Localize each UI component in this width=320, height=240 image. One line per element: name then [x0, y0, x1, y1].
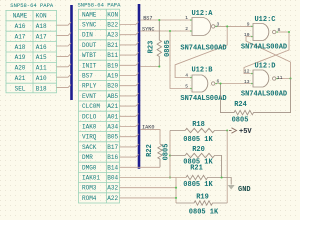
ground symbol: [228, 185, 235, 190]
resistor R20: [170, 153, 222, 177]
svg-text:SEL: SEL: [15, 85, 26, 92]
junction SYNC tap: [169, 30, 171, 32]
svg-text:B05: B05: [107, 134, 118, 141]
svg-text:8: 8: [278, 27, 281, 33]
svg-text:A23: A23: [107, 32, 118, 39]
svg-text:10: 10: [244, 32, 250, 38]
svg-text:U12:C: U12:C: [254, 16, 275, 24]
wire SYNC to bus2: [120, 22, 139, 25]
svg-text:A19: A19: [107, 73, 118, 80]
svg-text:INIT: INIT: [82, 62, 97, 69]
table X2 cell text: [82, 11, 118, 202]
svg-text:DMG0: DMG0: [82, 164, 97, 171]
wire EVNT to bus2: [120, 93, 139, 96]
U12:A pin end dots: [190, 19, 217, 32]
op-amp U12:C NAND gate: [253, 24, 276, 41]
wire A20 to bus: [57, 64, 72, 67]
svg-text:0805: 0805: [232, 117, 249, 125]
svg-text:13: 13: [244, 79, 250, 85]
svg-text:ROM4: ROM4: [82, 195, 97, 202]
svg-text:NAME: NAME: [13, 13, 28, 20]
svg-text:RPLY: RPLY: [82, 83, 97, 90]
wire left vertical node (R18/R20 left rail): [169, 131, 171, 178]
svg-text:R24: R24: [234, 101, 247, 109]
wire RPLY stub from bus2 to R23 bottom: [140, 66, 159, 68]
svg-text:R18: R18: [192, 121, 205, 129]
wire net BS7 from bus2 to U12:A pin 1: [140, 19, 192, 21]
resistor R22 (vertical): [158, 144, 162, 167]
svg-text:BS7: BS7: [143, 15, 152, 21]
junction ROM3 rail: [175, 187, 177, 189]
connector table X2 SNP58-64 PAPA (control lines): [79, 9, 120, 203]
svg-text:B04: B04: [107, 175, 118, 182]
wire U12:A output feedback diagonal to U12:B pin 4: [175, 26, 227, 77]
wire INIT to bus2: [120, 63, 139, 66]
svg-text:A19: A19: [15, 54, 26, 61]
svg-text:SN74ALS00AD: SN74ALS00AD: [180, 95, 226, 103]
svg-text:A22: A22: [107, 195, 118, 202]
svg-text:+5V: +5V: [239, 128, 252, 136]
svg-text:B21: B21: [107, 42, 118, 49]
wire U12:B output to U12:D pin 13: [215, 83, 253, 85]
power port +5V arrow: [229, 128, 237, 133]
svg-text:A17: A17: [36, 33, 47, 40]
svg-text:2: 2: [185, 26, 188, 32]
svg-text:0805: 0805: [163, 144, 171, 161]
svg-text:0805 1K: 0805 1K: [183, 136, 213, 144]
junction U12:A output node: [226, 25, 228, 27]
wire A18 to bus: [57, 43, 72, 46]
svg-text:SYNC: SYNC: [82, 22, 97, 29]
wire RPLY to bus2: [120, 83, 139, 86]
svg-text:NAME: NAME: [82, 11, 97, 18]
wire DCLO to bus2: [120, 114, 139, 117]
wire A19 to bus: [57, 53, 72, 56]
svg-text:B20: B20: [107, 83, 118, 90]
svg-text:R20: R20: [192, 146, 205, 154]
bus 2 (control bus): [138, 4, 141, 169]
wire DIN to bus2: [120, 32, 139, 35]
wire SEL to bus: [57, 85, 72, 88]
wire U12:D output cross-couple diagonal to U12:C pin 10: [246, 37, 291, 63]
wire U12:A output to U12:C pin 9: [215, 25, 253, 27]
wire A21 to bus: [57, 74, 72, 77]
svg-text:WTBT: WTBT: [82, 52, 97, 59]
svg-text:3: 3: [217, 21, 220, 27]
svg-text:KON: KON: [107, 11, 118, 18]
resistor R18: [170, 128, 227, 132]
connector table X1 SNP58-64 PAPA (address lines): [6, 10, 57, 92]
wire WTBT to bus2: [120, 52, 139, 55]
wire net ROM3 from table to rail: [120, 187, 177, 189]
svg-text:BS7: BS7: [82, 73, 93, 80]
wire net SYNC from bus2 to U12:A pin 2: [140, 30, 192, 32]
svg-text:B11: B11: [107, 52, 118, 59]
svg-text:0805 1K: 0805 1K: [183, 181, 213, 189]
junction U12:C output node: [288, 31, 290, 33]
svg-text:R23: R23: [148, 41, 156, 54]
svg-text:CLC0M: CLC0M: [82, 103, 100, 110]
svg-text:DCLO: DCLO: [82, 113, 97, 120]
svg-text:SN74ALS00AD: SN74ALS00AD: [241, 91, 287, 99]
wire net DMG0 from table to R22 bottom: [120, 166, 161, 168]
svg-text:U12:A: U12:A: [191, 10, 213, 18]
svg-text:0805 1K: 0805 1K: [189, 209, 219, 217]
svg-text:A18: A18: [15, 44, 26, 51]
junction R20 left: [169, 154, 171, 156]
junction R23 top on BS7 wire: [158, 19, 160, 21]
svg-text:0805: 0805: [164, 40, 172, 57]
junction rail on IAK01 wire: [169, 176, 171, 178]
svg-text:A15: A15: [36, 54, 47, 61]
svg-text:A34: A34: [107, 124, 118, 131]
wire net IAK0 from bus2 to R22 top: [140, 130, 160, 144]
svg-text:U12:D: U12:D: [254, 63, 275, 71]
svg-text:U12:B: U12:B: [191, 67, 213, 75]
wire net ROM4 from table to rail: [120, 197, 177, 199]
op-amp U12:A NAND gate: [192, 18, 218, 36]
junction R20/R21 GND tie: [221, 176, 223, 178]
svg-text:R22: R22: [146, 144, 154, 157]
svg-text:KON: KON: [36, 13, 47, 20]
svg-text:SNP58-64 PAPA: SNP58-64 PAPA: [78, 1, 122, 8]
wire A17 to bus: [57, 33, 72, 36]
svg-text:A20: A20: [15, 65, 26, 72]
wire BS7 to bus2: [120, 73, 139, 76]
svg-text:A10: A10: [36, 75, 47, 82]
wire CLC0M to bus2: [120, 103, 139, 106]
junction +5V node: [226, 129, 228, 131]
wire VIRQ to bus2: [120, 134, 139, 137]
junction U12:D output node: [289, 77, 291, 79]
svg-text:B18: B18: [36, 85, 47, 92]
svg-text:SNP58-64 PAPA: SNP58-64 PAPA: [10, 2, 54, 9]
svg-text:SN74ALS00AD: SN74ALS00AD: [180, 45, 226, 53]
wire A16 to bus: [57, 22, 72, 25]
svg-text:A18: A18: [36, 23, 47, 30]
svg-text:A11: A11: [36, 65, 47, 72]
svg-text:1: 1: [185, 15, 188, 21]
svg-text:A21: A21: [15, 75, 26, 82]
svg-text:R19: R19: [196, 194, 209, 202]
svg-text:IAK0: IAK0: [82, 124, 97, 131]
wire U12:C output cross-couple diagonal to U12:D pin 12: [244, 32, 289, 74]
svg-text:DMR: DMR: [82, 154, 93, 161]
svg-text:DIN: DIN: [82, 32, 93, 39]
svg-text:A21: A21: [107, 103, 118, 110]
svg-text:GND: GND: [238, 186, 251, 194]
wire net IAK01 from table to R21: [120, 177, 187, 179]
bus 1 (address bus): [70, 5, 73, 100]
wire U12:C output: [276, 31, 289, 33]
svg-text:A01: A01: [107, 113, 118, 120]
svg-text:A16: A16: [36, 44, 47, 51]
svg-text:VIRQ: VIRQ: [82, 134, 97, 141]
resistor R24 (feedback): [221, 79, 291, 115]
svg-text:IAK0: IAK0: [142, 124, 154, 130]
U12:C pin end dots: [251, 26, 278, 38]
wire DOUT to bus2: [120, 42, 139, 45]
junction R24 left on U12:B output: [219, 82, 221, 84]
op-amp U12:D NAND gate: [253, 70, 276, 87]
svg-text:SN74ALS00AD: SN74ALS00AD: [241, 44, 287, 52]
svg-text:SYNC: SYNC: [142, 26, 154, 32]
U12:B pin end dots: [190, 77, 217, 90]
wire U12:D output to feedback vertical: [276, 62, 291, 79]
resistor R23 (vertical): [157, 20, 161, 67]
wire SYNC tap down to U12:B pin 5: [170, 31, 192, 89]
svg-text:12: 12: [244, 69, 250, 75]
svg-text:SACK: SACK: [82, 144, 97, 151]
resistor R19: [176, 201, 227, 205]
resistor R21: [186, 175, 231, 184]
table X1 cell text: [13, 13, 47, 93]
svg-text:4: 4: [185, 73, 188, 79]
svg-text:AB5: AB5: [107, 93, 118, 100]
svg-text:A17: A17: [15, 33, 26, 40]
svg-text:IAK01: IAK01: [82, 175, 100, 182]
svg-text:A16: A16: [15, 23, 26, 30]
junction ROM4 rail: [175, 197, 177, 199]
svg-text:ROM3: ROM3: [82, 185, 97, 192]
svg-text:B22: B22: [107, 22, 118, 29]
wire +5V rail down to R19 right: [226, 131, 228, 204]
svg-text:B14: B14: [107, 164, 118, 171]
svg-text:EVNT: EVNT: [82, 93, 97, 100]
svg-text:5: 5: [185, 84, 188, 90]
wire U12:C pin 9 lead: [247, 25, 253, 27]
svg-text:9: 9: [247, 21, 250, 27]
junction R23 bottom: [158, 65, 160, 67]
wire IAK0 to bus2: [120, 124, 139, 127]
svg-text:11: 11: [277, 75, 283, 81]
svg-text:B16: B16: [107, 154, 118, 161]
svg-text:B17: B17: [107, 144, 118, 151]
svg-text:R21: R21: [190, 165, 203, 173]
wire SACK to bus2: [120, 144, 139, 147]
svg-text:A32: A32: [107, 185, 118, 192]
op-amp U12:B NAND gate: [192, 75, 215, 92]
wire DMR to bus2: [120, 154, 139, 157]
wire R19 left rail vertical: [175, 178, 177, 204]
svg-text:B19: B19: [107, 62, 118, 69]
svg-text:DOUT: DOUT: [82, 42, 97, 49]
svg-text:6: 6: [217, 79, 220, 85]
U12:D pin end dots: [251, 73, 278, 85]
